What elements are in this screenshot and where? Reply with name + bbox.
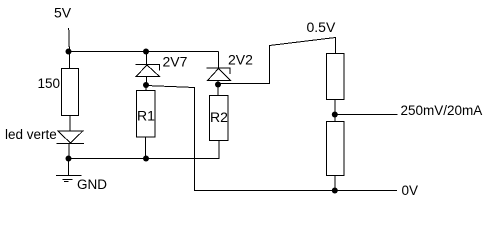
wire lower resistor to 0V rail xyxy=(334,176,336,191)
ground symbol xyxy=(56,175,82,177)
wire mid node to lower resistor xyxy=(334,115,336,122)
wire 5V lead xyxy=(68,28,71,52)
resistor R2 xyxy=(210,96,229,141)
wire node to R1 xyxy=(145,85,147,91)
svg-text:0V: 0V xyxy=(402,183,419,198)
wire resistor 150 to LED xyxy=(69,116,71,132)
svg-text:5V: 5V xyxy=(54,5,72,21)
svg-text:150: 150 xyxy=(38,76,61,91)
resistor upper right xyxy=(327,54,345,100)
svg-text:250mV/20mA: 250mV/20mA xyxy=(401,103,483,118)
wire R2 to gnd rail xyxy=(218,141,220,160)
svg-text:2V7: 2V7 xyxy=(163,54,188,70)
junction LED / gnd rail xyxy=(66,156,72,162)
junction mid node xyxy=(332,112,338,118)
resistor 150 xyxy=(62,69,79,116)
wire R1 to gnd rail xyxy=(145,137,147,159)
svg-text:R1: R1 xyxy=(137,108,155,124)
svg-text:led verte: led verte xyxy=(5,127,57,142)
wire top rail 5V xyxy=(69,51,219,53)
wire 5V to resistor 150 xyxy=(69,52,71,69)
svg-text:R2: R2 xyxy=(210,109,228,125)
junction zener 2V7 anode xyxy=(143,82,149,88)
wire node to R2 xyxy=(217,85,219,96)
zener diode 2V2 xyxy=(207,68,231,74)
wire mid node to 250mV label xyxy=(335,114,398,116)
svg-text:2V2: 2V2 xyxy=(228,52,253,68)
svg-text:GND: GND xyxy=(77,177,107,192)
wire upper resistor to mid node xyxy=(334,100,336,116)
junction top rail / 2V7 xyxy=(143,49,149,55)
junction 5V rail left xyxy=(66,49,72,55)
junction R1 / gnd rail xyxy=(143,156,149,162)
zener diode 2V7 xyxy=(136,65,160,71)
wire top rail to zener 2V7 xyxy=(146,52,148,65)
wire ground stub xyxy=(68,159,70,176)
wire top rail to zener 2V2 xyxy=(218,52,220,69)
wire 2V2 node to 0.5V net xyxy=(218,38,336,84)
wire zener 2V7 to node xyxy=(146,77,148,86)
wire zener 2V2 to node xyxy=(217,81,219,85)
wire 2V7 node to 0V rail xyxy=(146,86,397,191)
resistor R1 xyxy=(137,91,156,138)
svg-text:0.5V: 0.5V xyxy=(307,19,336,35)
junction zener 2V2 anode xyxy=(215,82,221,88)
junction 0V rail xyxy=(332,188,338,194)
resistor lower right xyxy=(327,122,345,176)
LED D1 led verte xyxy=(58,131,83,143)
wire LED to ground rail xyxy=(68,144,70,159)
wire gnd rail xyxy=(69,158,220,160)
